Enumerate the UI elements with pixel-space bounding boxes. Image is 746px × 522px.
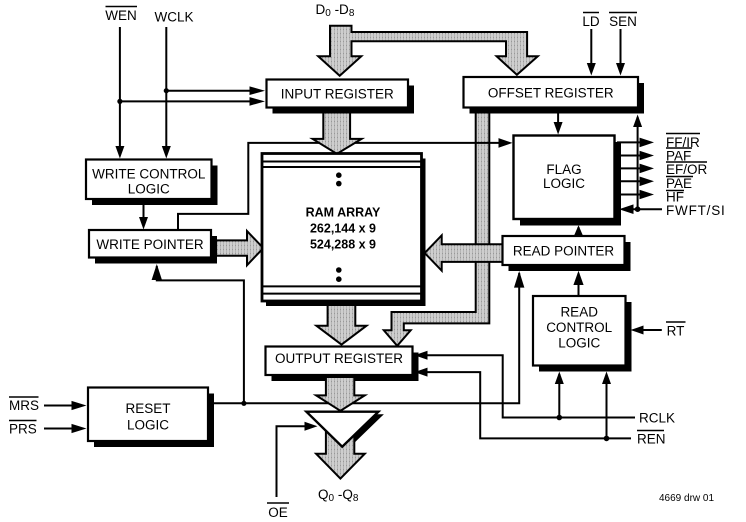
bus output register to tri-state (316, 377, 365, 411)
wire WCLK branch to input register (164, 86, 265, 95)
svg-text:READ POINTER: READ POINTER (513, 244, 615, 259)
wire WEN branch to input register (117, 97, 265, 106)
svg-text:FLAG: FLAG (546, 162, 581, 177)
wire flag output PAE (617, 177, 654, 187)
svg-text:FWFT/SI: FWFT/SI (666, 203, 726, 218)
svg-text:RCLK: RCLK (639, 411, 675, 426)
svg-text:LOGIC: LOGIC (127, 418, 169, 433)
label HF (666, 190, 684, 205)
wire flag output FF/IR (617, 138, 654, 148)
svg-text:REN: REN (637, 432, 666, 447)
tri-state buffer (306, 412, 378, 447)
wire flag output EF/OR (617, 164, 654, 174)
bus write pointer to RAM (212, 231, 263, 265)
wire RT (631, 326, 662, 335)
svg-text:PRS: PRS (9, 422, 37, 437)
wire LD vertical (587, 29, 596, 76)
box READ CONTROL LOGIC (533, 296, 632, 372)
label RT (666, 322, 686, 339)
wire offset register to flag logic (554, 108, 563, 135)
box RAM ARRAY (262, 154, 426, 307)
bus input register to RAM (313, 108, 362, 154)
svg-text:WRITE CONTROL: WRITE CONTROL (92, 167, 206, 182)
svg-text:OFFSET REGISTER: OFFSET REGISTER (488, 86, 614, 101)
box RESET LOGIC (88, 388, 214, 448)
svg-text:4669 drw 01: 4669 drw 01 (659, 493, 714, 504)
wire FWFT/SI vertical to offset register (633, 115, 642, 213)
bus offset register down to output register (384, 108, 490, 346)
svg-text:524,288 x 9: 524,288 x 9 (310, 238, 376, 252)
label OE (267, 503, 289, 520)
svg-text:OUTPUT REGISTER: OUTPUT REGISTER (275, 351, 403, 366)
wire RCLK branch to read control (555, 372, 564, 418)
wire SEN vertical (616, 29, 625, 76)
box INPUT REGISTER (267, 80, 415, 114)
wire write control to write pointer (139, 199, 148, 230)
label MRS (9, 397, 39, 413)
wire REN (415, 368, 632, 442)
bus RAM to output register (316, 303, 366, 345)
svg-text:WCLK: WCLK (154, 10, 193, 25)
box READ POINTER (503, 236, 631, 271)
svg-text:Q0 -Q8: Q0 -Q8 (318, 487, 359, 504)
label drawing number (659, 493, 714, 504)
svg-text:RESET: RESET (125, 401, 170, 416)
svg-text:WRITE POINTER: WRITE POINTER (96, 237, 203, 252)
wire reset logic to pointers (208, 271, 524, 406)
box OFFSET REGISTER (464, 77, 645, 114)
wire RCLK (415, 351, 636, 421)
wire WCLK vertical (162, 27, 171, 159)
svg-text:RAM ARRAY: RAM ARRAY (306, 206, 381, 220)
wire OE (277, 422, 318, 497)
wire reset branch to write pointer (152, 264, 244, 403)
label Q0-Q8 (318, 487, 359, 504)
label SEN (609, 13, 637, 30)
label REN (637, 431, 666, 447)
wire REN branch to read control (602, 372, 611, 439)
bus tri-state to Q outputs (316, 432, 365, 479)
label PAF (666, 148, 692, 164)
label WCLK (154, 10, 193, 25)
wire write pointer to flag logic (178, 138, 513, 230)
svg-text:RT: RT (667, 324, 685, 339)
svg-text:INPUT REGISTER: INPUT REGISTER (281, 87, 394, 102)
svg-text:262,144 x 9: 262,144 x 9 (310, 222, 376, 236)
label LD (582, 13, 600, 30)
box WRITE POINTER (89, 230, 217, 264)
svg-text:OE: OE (268, 505, 288, 520)
box WRITE CONTROL LOGIC (86, 160, 218, 206)
box OUTPUT REGISTER (266, 347, 419, 382)
svg-text:LD: LD (582, 14, 600, 29)
svg-text:READ: READ (560, 305, 598, 320)
wire PRS (44, 424, 87, 433)
label EF/OR (666, 162, 708, 177)
svg-text:LOGIC: LOGIC (543, 176, 585, 191)
svg-text:LOGIC: LOGIC (558, 336, 600, 351)
label FF/IR (666, 134, 700, 151)
label WEN (105, 7, 137, 24)
wire read pointer to flag logic (574, 225, 583, 236)
wire FWFT/SI input (619, 204, 662, 214)
label D0-D8 (316, 2, 355, 19)
label PAE (666, 176, 693, 191)
wire MRS (44, 401, 87, 410)
svg-text:LOGIC: LOGIC (128, 182, 170, 197)
bus D0-D8 to input and offset registers (318, 26, 538, 76)
svg-text:MRS: MRS (9, 398, 39, 413)
label FWFT/SI (666, 203, 726, 218)
box FLAG LOGIC (514, 136, 622, 226)
label RCLK (639, 411, 675, 426)
wire flag output HF (617, 190, 654, 200)
bus read pointer to RAM (425, 235, 503, 270)
svg-text:EF/OR: EF/OR (666, 162, 708, 177)
svg-text:WEN: WEN (105, 8, 137, 23)
svg-text:CONTROL: CONTROL (546, 320, 612, 335)
wire WEN vertical (115, 27, 124, 159)
svg-text:SEN: SEN (609, 14, 637, 29)
wire read control to read pointer (573, 271, 583, 296)
tri-state buffer shadow (312, 414, 384, 449)
wire flag output PAF (617, 151, 654, 161)
label PRS (9, 421, 37, 437)
